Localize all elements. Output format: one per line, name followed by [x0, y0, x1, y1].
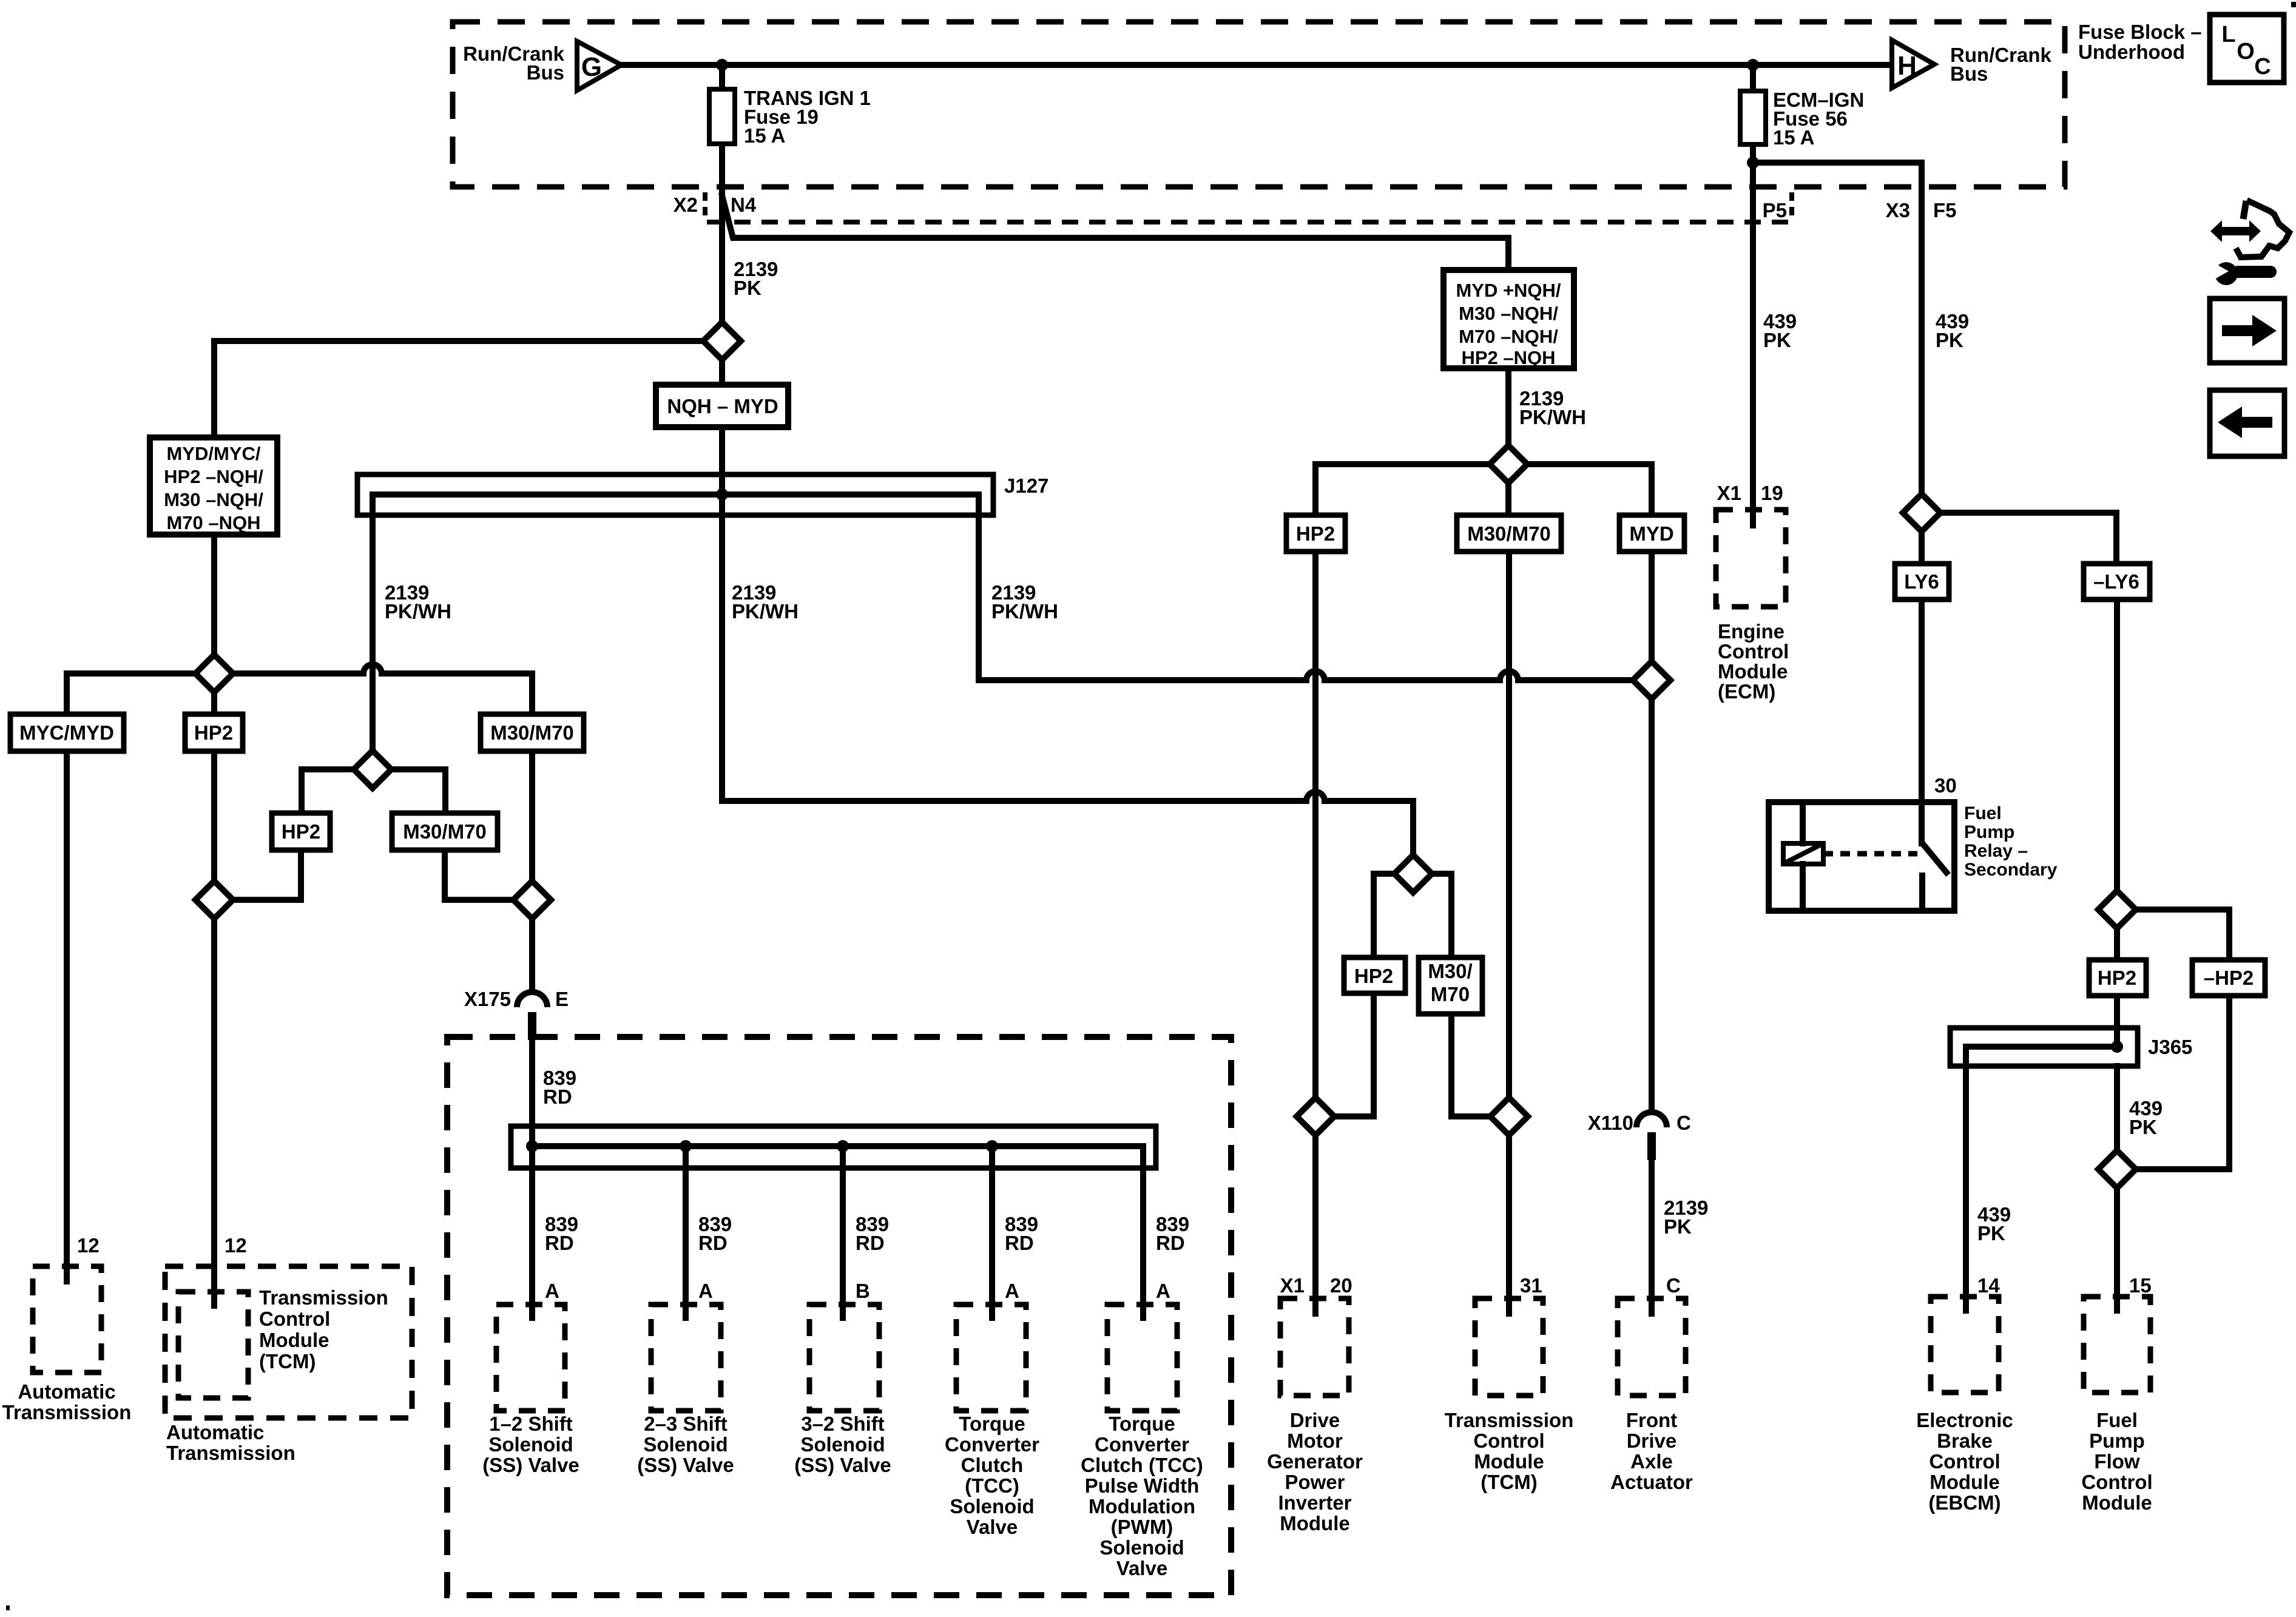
svg-text:Motor: Motor [1287, 1430, 1343, 1452]
svg-text:Torque: Torque [959, 1413, 1025, 1435]
svg-text:12: 12 [225, 1234, 247, 1257]
svg-text:M30/M70: M30/M70 [403, 820, 487, 843]
svg-text:Transmission: Transmission [1445, 1409, 1574, 1431]
svg-text:–HP2: –HP2 [2204, 967, 2254, 989]
svg-text:A: A [545, 1280, 559, 1302]
svg-text:2–3 Shift: 2–3 Shift [644, 1413, 728, 1435]
svg-text:(ECM): (ECM) [1718, 680, 1775, 703]
svg-text:M30 –NQH/: M30 –NQH/ [164, 489, 263, 510]
svg-text:(SS) Valve: (SS) Valve [482, 1454, 579, 1476]
svg-text:F5: F5 [1933, 199, 1957, 221]
svg-text:3–2 Shift: 3–2 Shift [801, 1413, 885, 1435]
svg-text:J365: J365 [2148, 1036, 2192, 1058]
svg-text:30: 30 [1934, 774, 1957, 797]
svg-text:PK/WH: PK/WH [1519, 406, 1586, 428]
svg-text:20: 20 [1330, 1274, 1352, 1297]
svg-text:E: E [555, 988, 569, 1010]
svg-text:X175: X175 [464, 988, 511, 1010]
svg-text:PK: PK [1977, 1222, 2005, 1244]
svg-text:MYD +NQH/: MYD +NQH/ [1456, 280, 1561, 301]
svg-text:RD: RD [1156, 1232, 1185, 1254]
svg-text:RD: RD [545, 1232, 574, 1254]
svg-text:Module: Module [1930, 1471, 1999, 1493]
svg-text:PK: PK [734, 277, 761, 299]
svg-text:L: L [2221, 22, 2235, 47]
svg-text:PK: PK [1936, 329, 1963, 351]
svg-text:X1: X1 [1717, 482, 1741, 504]
svg-text:Converter: Converter [945, 1433, 1039, 1456]
svg-text:–LY6: –LY6 [2093, 570, 2139, 593]
svg-text:M30 –NQH/: M30 –NQH/ [1459, 303, 1558, 324]
svg-text:PK: PK [1763, 329, 1791, 351]
svg-text:Torque: Torque [1109, 1413, 1175, 1435]
svg-text:15 A: 15 A [1773, 126, 1814, 149]
svg-text:Power: Power [1285, 1471, 1345, 1493]
svg-text:MYC/MYD: MYC/MYD [19, 721, 114, 744]
svg-text:PK: PK [2129, 1116, 2157, 1138]
svg-text:Control: Control [1929, 1450, 2000, 1473]
svg-text:Modulation: Modulation [1089, 1495, 1195, 1517]
svg-text:Module: Module [1280, 1512, 1349, 1534]
svg-text:RD: RD [856, 1232, 885, 1254]
svg-text:14: 14 [1977, 1274, 2000, 1297]
svg-text:Valve: Valve [967, 1516, 1018, 1538]
svg-text:M70 –NQH: M70 –NQH [166, 512, 260, 533]
svg-text:1–2 Shift: 1–2 Shift [489, 1413, 573, 1435]
svg-text:Front: Front [1626, 1409, 1677, 1431]
svg-text:PK/WH: PK/WH [732, 600, 799, 623]
svg-text:RD: RD [1005, 1232, 1034, 1254]
svg-text:HP2: HP2 [282, 820, 320, 843]
svg-text:Pulse Width: Pulse Width [1085, 1474, 1200, 1497]
svg-text:HP2: HP2 [1354, 965, 1393, 987]
svg-text:M70 –NQH/: M70 –NQH/ [1459, 326, 1558, 347]
svg-text:A: A [698, 1280, 713, 1302]
svg-text:15 A: 15 A [744, 124, 785, 147]
svg-text:X2: X2 [674, 194, 698, 216]
svg-text:HP2: HP2 [194, 721, 233, 744]
svg-text:(TCM): (TCM) [259, 1350, 316, 1372]
svg-text:NQH – MYD: NQH – MYD [667, 395, 778, 417]
svg-text:HP2: HP2 [2098, 967, 2136, 989]
svg-text:P5: P5 [1763, 199, 1787, 221]
svg-text:PK/WH: PK/WH [385, 600, 451, 623]
svg-text:Transmission: Transmission [166, 1442, 295, 1464]
svg-text:M70: M70 [1431, 983, 1470, 1005]
svg-text:Control: Control [2081, 1471, 2152, 1493]
svg-text:19: 19 [1761, 482, 1783, 504]
svg-text:X1: X1 [1280, 1274, 1305, 1297]
svg-text:HP2: HP2 [1296, 522, 1335, 545]
svg-text:HP2 –NQH: HP2 –NQH [1461, 347, 1555, 368]
svg-text:Bus: Bus [1950, 62, 1988, 85]
svg-text:(TCM): (TCM) [1481, 1471, 1537, 1493]
svg-text:Transmission: Transmission [2, 1401, 132, 1423]
svg-text:X3: X3 [1886, 199, 1910, 221]
svg-text:Relay –: Relay – [1964, 841, 2028, 861]
svg-text:MYD: MYD [1629, 522, 1673, 545]
svg-text:Module: Module [259, 1329, 329, 1351]
svg-text:M30/M70: M30/M70 [1467, 522, 1551, 545]
svg-text:(SS) Valve: (SS) Valve [637, 1454, 734, 1476]
svg-text:Fuel: Fuel [2096, 1409, 2138, 1431]
svg-text:Underhood: Underhood [2078, 41, 2185, 63]
svg-text:Electronic: Electronic [1916, 1409, 2013, 1431]
svg-text:(EBCM): (EBCM) [1928, 1491, 2001, 1514]
svg-text:Fuel: Fuel [1964, 803, 2002, 823]
svg-text:Secondary: Secondary [1964, 860, 2058, 880]
svg-text:N4: N4 [731, 194, 757, 216]
svg-text:Control: Control [1718, 640, 1789, 663]
svg-text:Pump: Pump [1964, 822, 2014, 842]
svg-text:Control: Control [259, 1308, 330, 1330]
svg-text:Bus: Bus [527, 61, 564, 84]
svg-text:Actuator: Actuator [1610, 1471, 1693, 1493]
svg-text:HP2 –NQH/: HP2 –NQH/ [164, 466, 263, 487]
svg-text:Transmission: Transmission [259, 1286, 388, 1309]
svg-text:A: A [1156, 1280, 1170, 1302]
svg-text:C: C [1676, 1112, 1691, 1134]
svg-text:12: 12 [77, 1234, 100, 1257]
svg-text:C: C [1666, 1274, 1681, 1297]
svg-text:B: B [856, 1280, 870, 1302]
svg-text:Flow: Flow [2094, 1450, 2139, 1473]
svg-text:LY6: LY6 [1904, 570, 1939, 593]
svg-text:Module: Module [1474, 1450, 1544, 1473]
svg-text:Automatic: Automatic [18, 1380, 115, 1403]
svg-text:Module: Module [1718, 660, 1788, 683]
svg-text:RD: RD [698, 1232, 728, 1254]
svg-text:PK: PK [1664, 1215, 1692, 1238]
svg-text:Generator: Generator [1267, 1450, 1363, 1473]
svg-text:Converter: Converter [1095, 1433, 1189, 1456]
svg-text:Valve: Valve [1116, 1557, 1167, 1579]
svg-text:H: H [1897, 51, 1917, 81]
svg-text:Control: Control [1473, 1430, 1544, 1452]
svg-text:Drive: Drive [1627, 1430, 1677, 1452]
svg-text:J127: J127 [1004, 474, 1048, 497]
svg-text:Axle: Axle [1630, 1450, 1673, 1473]
svg-text:Inverter: Inverter [1278, 1491, 1351, 1514]
svg-text:Solenoid: Solenoid [488, 1433, 573, 1456]
svg-text:M30/M70: M30/M70 [490, 721, 574, 744]
svg-text:Solenoid: Solenoid [950, 1495, 1034, 1517]
svg-text:15: 15 [2129, 1274, 2152, 1297]
svg-text:O: O [2237, 39, 2255, 64]
svg-text:Clutch: Clutch [961, 1454, 1024, 1476]
svg-text:Clutch (TCC): Clutch (TCC) [1081, 1454, 1203, 1476]
svg-text:Fuse Block –: Fuse Block – [2078, 21, 2202, 43]
svg-text:RD: RD [543, 1085, 572, 1108]
svg-text:C: C [2254, 54, 2271, 79]
svg-text:MYD/MYC/: MYD/MYC/ [167, 443, 261, 464]
svg-text:PK/WH: PK/WH [991, 600, 1058, 623]
svg-text:Solenoid: Solenoid [1099, 1536, 1184, 1559]
svg-text:M30/: M30/ [1428, 960, 1472, 982]
svg-text:Automatic: Automatic [166, 1421, 264, 1443]
svg-text:(PWM): (PWM) [1111, 1516, 1173, 1538]
svg-text:(SS) Valve: (SS) Valve [794, 1454, 891, 1476]
svg-text:X110: X110 [1588, 1112, 1633, 1134]
svg-text:Solenoid: Solenoid [643, 1433, 728, 1456]
svg-text:31: 31 [1520, 1274, 1542, 1297]
svg-text:Drive: Drive [1290, 1409, 1340, 1431]
svg-text:Module: Module [2082, 1491, 2152, 1514]
svg-text:Pump: Pump [2089, 1430, 2145, 1452]
svg-text:Engine: Engine [1718, 620, 1784, 643]
svg-text:A: A [1005, 1280, 1019, 1302]
svg-text:(TCC): (TCC) [965, 1474, 1019, 1497]
svg-text:G: G [581, 52, 602, 82]
svg-text:Brake: Brake [1937, 1430, 1993, 1452]
svg-text:Solenoid: Solenoid [800, 1433, 885, 1456]
